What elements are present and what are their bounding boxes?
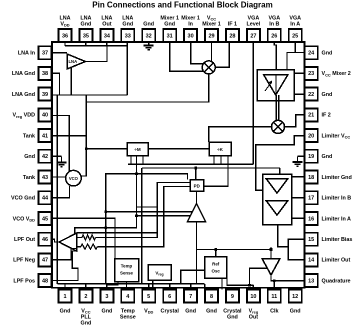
divider M2 LO — [209, 142, 231, 156]
pin 38 LNA Gnd — [39, 67, 52, 80]
wire buffer to xtal — [197, 249, 216, 251]
svg-text:Gnd: Gnd — [206, 309, 217, 315]
wire opamp hook — [75, 156, 137, 234]
svg-text:Sense: Sense — [120, 271, 133, 276]
wire pin39 gnd — [56, 95, 58, 284]
wire pin20 limiter vcc — [256, 136, 305, 191]
pin 39 LNA Gnd — [39, 88, 52, 101]
svg-text:30: 30 — [188, 33, 194, 39]
amplifier crystal buffer — [188, 204, 206, 222]
junction — [104, 226, 107, 229]
svg-text:LPF Neg: LPF Neg — [13, 258, 35, 264]
wire pin43 tank — [52, 176, 66, 178]
wire pin10 riser — [252, 285, 254, 289]
wire vreg to pin5 — [152, 280, 154, 290]
pin 43 Tank — [39, 171, 52, 184]
oscillator VCO — [66, 170, 82, 186]
pin 30 Mixer 1 In — [184, 29, 197, 42]
wire quad out pin13 — [271, 275, 305, 281]
junction — [214, 248, 217, 251]
wire pin11 clk — [273, 281, 275, 290]
svg-text:Vreg​ VDD: Vreg​ VDD — [12, 113, 35, 119]
pin 19 Gnd — [305, 150, 318, 163]
svg-text:44: 44 — [42, 196, 49, 202]
wire pin27 drop — [252, 42, 254, 164]
pin 10 Vreg Out — [247, 290, 260, 303]
svg-text:8: 8 — [210, 294, 213, 300]
svg-text:Gnd: Gnd — [185, 309, 196, 315]
svg-text:Limiter Out: Limiter Out — [322, 258, 351, 264]
wire opamp link H2 — [77, 232, 158, 234]
svg-text:LPF Out: LPF Out — [14, 237, 35, 243]
wire osc gnd drop — [204, 284, 206, 290]
wire limiter pin18 — [292, 176, 305, 178]
pin 24 Gnd — [305, 46, 318, 59]
svg-text:PD: PD — [194, 183, 200, 188]
wire R1 lead — [77, 237, 83, 239]
wire M2 LO — [209, 127, 272, 142]
svg-text:Limiter Gnd: Limiter Gnd — [322, 175, 352, 181]
svg-text:Tank: Tank — [23, 175, 35, 181]
svg-text:27: 27 — [250, 33, 256, 39]
svg-text:19: 19 — [308, 154, 314, 160]
wire pin37 LNA in — [52, 52, 67, 54]
svg-text:Gnd: Gnd — [60, 309, 71, 315]
pin 40 Vreg VDD — [39, 108, 52, 121]
wire LO to divider — [86, 148, 127, 150]
wire pin41 tank — [52, 135, 86, 137]
svg-text:25: 25 — [292, 33, 298, 39]
junction — [273, 280, 276, 283]
wire LPF out — [52, 239, 59, 242]
svg-text:46: 46 — [42, 237, 48, 243]
mixer M2 — [272, 120, 285, 133]
pin 4 Temp Sense — [121, 290, 134, 303]
pin 18 Limiter Gnd — [305, 171, 318, 184]
pin 9 Crystal Gnd — [226, 290, 239, 303]
wire tank bus — [81, 95, 86, 176]
wire pin26 to VGA — [274, 42, 276, 70]
wire pin6 crystal — [169, 284, 171, 290]
wire LNA bottom — [70, 68, 72, 95]
svg-text:÷K: ÷K — [217, 147, 224, 152]
pin 48 LPF Pos — [39, 274, 52, 287]
pin 5 VDD — [142, 290, 155, 303]
svg-text:17: 17 — [308, 196, 314, 202]
wire pin48 pos — [52, 251, 78, 281]
wire pin7 stub — [190, 284, 192, 290]
amplifier VGA — [257, 70, 294, 101]
wire crystal riser — [181, 270, 205, 283]
junction — [85, 148, 88, 151]
svg-text:VDD​: VDD​ — [60, 22, 69, 28]
wire pin35 drop — [85, 42, 87, 46]
wire limiter pin17 — [292, 197, 305, 199]
svg-text:35: 35 — [83, 33, 89, 39]
amplifier quadrature buffer — [262, 259, 280, 276]
wire PD to buffer — [196, 191, 198, 204]
svg-text:22: 22 — [308, 92, 314, 98]
svg-text:LNA: LNA — [69, 59, 78, 64]
svg-text:Gnd: Gnd — [164, 22, 175, 28]
pin 46 LPF Out — [39, 233, 52, 246]
junction — [135, 215, 138, 218]
svg-text:Limiter VCC​: Limiter VCC​ — [322, 133, 351, 139]
svg-text:Gnd: Gnd — [102, 309, 113, 315]
svg-text:VCO VDD​: VCO VDD​ — [13, 216, 36, 222]
wire PD top — [195, 168, 197, 180]
svg-text:Gnd: Gnd — [322, 92, 333, 98]
svg-text:Pin Connections and Functional: Pin Connections and Functional Block Dia… — [92, 1, 272, 10]
wire pin1 stub — [64, 284, 66, 290]
svg-text:Gnd: Gnd — [24, 154, 35, 160]
wire LNA top rail — [64, 42, 66, 46]
pin 20 Limiter VCC — [305, 129, 318, 142]
svg-text:48: 48 — [42, 278, 48, 284]
svg-text:Gnd: Gnd — [122, 22, 133, 28]
svg-text:In A: In A — [290, 22, 300, 28]
pin 1 Gnd — [59, 290, 72, 303]
svg-text:32: 32 — [146, 33, 152, 39]
svg-text:18: 18 — [308, 175, 314, 181]
pin 37 LNA In — [39, 46, 52, 59]
svg-text:12: 12 — [292, 294, 298, 300]
wire limiter top — [279, 168, 281, 174]
svg-text:1: 1 — [63, 294, 66, 300]
svg-text:41: 41 — [42, 133, 48, 139]
pin 21 IF 2 — [305, 108, 318, 121]
junction — [248, 284, 251, 287]
pin 8 Gnd — [205, 290, 218, 303]
svg-text:37: 37 — [42, 51, 48, 57]
svg-text:Crystal: Crystal — [161, 309, 180, 315]
svg-text:43: 43 — [42, 175, 48, 181]
svg-text:Tank: Tank — [23, 133, 35, 139]
op-amp LNA — [67, 54, 86, 69]
svg-text:3: 3 — [105, 294, 108, 300]
wire pin22 to VGA — [294, 93, 305, 95]
wire divider link — [148, 148, 209, 150]
svg-text:Gnd: Gnd — [81, 22, 92, 28]
ground at pin 19 — [298, 155, 305, 157]
wire quad in — [270, 247, 272, 259]
svg-text:26: 26 — [271, 33, 277, 39]
pin 6 Crystal — [163, 290, 176, 303]
phase detector PD — [190, 180, 204, 192]
op-amp LPF — [59, 233, 77, 251]
pin 29 VCC Mixer 1 — [205, 29, 218, 42]
wire quad left — [250, 268, 267, 285]
svg-text:21: 21 — [308, 113, 314, 119]
wire link 207 — [137, 206, 158, 208]
wire M1 LO — [86, 74, 208, 102]
wire pin31 to M1 — [170, 42, 204, 71]
svg-text:LNA Gnd: LNA Gnd — [12, 71, 35, 77]
junction — [270, 248, 273, 251]
resistor R2 — [81, 244, 98, 249]
svg-text:Gnd: Gnd — [322, 51, 333, 57]
wire pin24 to VGA — [287, 53, 305, 70]
wire pin30 to M1 — [191, 42, 203, 64]
pin 13 Quadrature — [305, 274, 318, 287]
svg-text:IF 2: IF 2 — [322, 113, 331, 119]
svg-text:Limiter In A: Limiter In A — [322, 216, 352, 222]
svg-text:28: 28 — [229, 33, 235, 39]
wire bus 164 — [128, 163, 253, 165]
svg-text:IF 1: IF 1 — [228, 22, 237, 28]
pin 31 Mixer 1 Gnd — [163, 29, 176, 42]
block Ref Osc — [205, 257, 227, 278]
pin 15 Limiter Bias — [305, 233, 318, 246]
wire VGA to M2 b — [278, 95, 280, 121]
svg-text:Sense: Sense — [120, 315, 136, 321]
svg-text:23: 23 — [308, 71, 314, 77]
pin 23 VCC Mixer 2 — [305, 67, 318, 80]
wire div1 stub a — [130, 156, 132, 165]
svg-text:In B: In B — [269, 22, 279, 28]
wire bus 168 — [142, 167, 280, 169]
wire M1 out to IF1 — [215, 42, 229, 67]
svg-text:31: 31 — [167, 33, 173, 39]
wire R2 lead — [77, 246, 81, 248]
wire pin2 stub — [85, 284, 87, 290]
wire pin40 vreg — [52, 116, 69, 172]
ground at pin 32 — [148, 42, 150, 46]
wire limiter pin16 — [292, 217, 305, 219]
wire xtal top — [215, 250, 217, 257]
svg-text:Limiter Bias: Limiter Bias — [322, 237, 353, 243]
svg-text:2: 2 — [84, 294, 87, 300]
wire buf tap b — [137, 215, 191, 217]
svg-text:In: In — [188, 22, 193, 28]
svg-text:Ref: Ref — [212, 262, 220, 267]
wire div2 to PD — [204, 156, 229, 187]
limiter block — [263, 174, 292, 224]
svg-text:Out: Out — [249, 315, 258, 321]
divider M1 LO — [127, 143, 148, 156]
wire xtal to quad — [216, 249, 271, 251]
wire pin33 drop — [126, 42, 128, 95]
wire buffer bottom — [196, 222, 198, 252]
wire pin34 drop — [106, 42, 108, 46]
pin 27 VGA Level — [247, 29, 260, 42]
wire pin29 to M1 top — [211, 42, 213, 61]
svg-text:Osc: Osc — [212, 269, 221, 274]
mixer M1 — [202, 61, 215, 74]
resistor R1 — [82, 235, 96, 240]
svg-text:÷M: ÷M — [134, 147, 141, 152]
junction — [104, 211, 107, 214]
pin 45 VCO VDD — [39, 212, 52, 225]
wire buffer down — [196, 251, 198, 284]
svg-text:15: 15 — [308, 237, 314, 243]
svg-text:6: 6 — [168, 294, 171, 300]
pin 36 LNA VDD — [59, 29, 72, 42]
block Temp Sense — [115, 259, 139, 282]
wire pin45 vco vdd — [52, 218, 115, 258]
pin 28 IF 1 — [226, 29, 239, 42]
svg-text:Gnd: Gnd — [81, 321, 92, 327]
wire gnd link 94 — [52, 94, 127, 96]
pin 34 LNA Out — [100, 29, 113, 42]
svg-text:13: 13 — [308, 278, 314, 284]
svg-text:Level: Level — [247, 22, 261, 28]
wire pin3 temp — [107, 282, 118, 290]
svg-text:Gnd: Gnd — [227, 315, 238, 321]
pin 26 VGA In B — [268, 29, 281, 42]
wire bottom bus — [57, 283, 204, 285]
pin 41 Tank — [39, 129, 52, 142]
pin 22 Gnd — [305, 88, 318, 101]
svg-text:Gnd: Gnd — [322, 154, 333, 160]
svg-text:Mixer 1: Mixer 1 — [202, 22, 221, 28]
svg-text:36: 36 — [62, 33, 68, 39]
pin 42 Gnd — [39, 150, 52, 163]
wire rail — [65, 45, 128, 47]
svg-text:45: 45 — [42, 216, 48, 222]
svg-text:LPF Pos: LPF Pos — [13, 278, 35, 284]
pin 12 Gnd — [289, 290, 302, 303]
wire pin38 gnd — [52, 73, 60, 95]
svg-text:Limiter In B: Limiter In B — [322, 196, 352, 202]
svg-text:VCO: VCO — [69, 176, 79, 181]
svg-text:33: 33 — [125, 33, 131, 39]
svg-text:29: 29 — [208, 33, 214, 39]
svg-text:16: 16 — [308, 216, 314, 222]
wire osc out bus — [227, 278, 253, 285]
svg-text:Out: Out — [102, 22, 111, 28]
block Vreg — [148, 265, 171, 280]
svg-text:20: 20 — [308, 133, 314, 139]
wire R2 line — [97, 187, 190, 247]
pin 7 Gnd — [184, 290, 197, 303]
junction — [135, 173, 138, 176]
svg-text:Gnd: Gnd — [143, 22, 154, 28]
svg-text:Temp: Temp — [121, 264, 133, 269]
svg-text:5: 5 — [147, 294, 150, 300]
pin 2 VCC PLL Gnd — [79, 290, 92, 303]
svg-text:24: 24 — [308, 51, 315, 57]
pin 25 VGA In A — [289, 29, 302, 42]
pin 16 Limiter In A — [305, 212, 318, 225]
wire pin25 jog — [294, 42, 296, 53]
wire div2 stub a — [213, 156, 215, 165]
svg-text:39: 39 — [42, 92, 48, 98]
pin 44 VCO Gnd — [39, 191, 52, 204]
svg-text:VDD​: VDD​ — [144, 309, 153, 315]
svg-text:38: 38 — [42, 71, 48, 77]
svg-text:Gnd: Gnd — [290, 309, 301, 315]
svg-text:34: 34 — [104, 33, 111, 39]
wire pin15 bias — [288, 239, 304, 247]
wire div1 stub b — [142, 156, 144, 165]
pin 17 Limiter In B — [305, 191, 318, 204]
svg-text:LNA Gnd: LNA Gnd — [12, 92, 35, 98]
ground at pin 42 — [52, 155, 62, 157]
svg-text:10: 10 — [250, 294, 256, 300]
svg-text:14: 14 — [308, 258, 315, 264]
svg-text:40: 40 — [42, 113, 48, 119]
wire M2 out to IF2 — [285, 115, 305, 127]
wire xtal stub pin9 — [221, 278, 223, 289]
svg-text:11: 11 — [271, 294, 277, 300]
svg-text:7: 7 — [189, 294, 192, 300]
svg-text:42: 42 — [42, 154, 48, 160]
pin 3 Gnd — [100, 290, 113, 303]
wire PD ref line — [106, 174, 188, 284]
wire pin47 neg — [52, 249, 77, 260]
junction — [194, 167, 197, 170]
wire R1 line — [96, 183, 191, 238]
wire pin44 vco gnd — [52, 186, 70, 198]
wire VGA to M2 a — [275, 95, 277, 121]
pin 32 Gnd — [142, 29, 155, 42]
wire buf tap — [106, 211, 193, 213]
chip body outline — [52, 42, 305, 288]
svg-text:VCC​ Mixer 2: VCC​ Mixer 2 — [322, 71, 351, 77]
wire div2 stub b — [220, 156, 222, 165]
svg-text:47: 47 — [42, 258, 48, 264]
svg-text:9: 9 — [231, 294, 234, 300]
wire pin23 to VGA — [294, 72, 305, 74]
pin 11 Clk — [268, 290, 281, 303]
pin 14 Limiter Out — [305, 253, 318, 266]
svg-text:LNA In: LNA In — [18, 51, 35, 57]
svg-text:Quadrature: Quadrature — [322, 278, 351, 284]
wire temp to pin4 — [126, 282, 128, 290]
pin 35 LNA Gnd — [79, 29, 92, 42]
svg-text:VCO Gnd: VCO Gnd — [11, 196, 35, 202]
wire LNA out up — [86, 46, 107, 62]
pin 33 LNA Gnd — [121, 29, 134, 42]
wire limiter out — [278, 225, 305, 260]
wire bus168 left drop — [142, 168, 149, 290]
pin 47 LPF Neg — [39, 253, 52, 266]
svg-text:Clk: Clk — [270, 309, 278, 315]
